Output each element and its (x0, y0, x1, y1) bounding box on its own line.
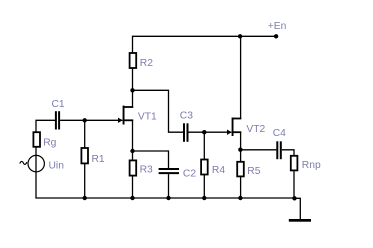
svg-text:C2: C2 (183, 168, 196, 179)
svg-text:Uin: Uin (49, 160, 65, 171)
svg-text:R3: R3 (140, 165, 153, 176)
svg-text:R5: R5 (247, 166, 260, 177)
svg-text:Rnp: Rnp (302, 160, 321, 171)
svg-text:+En: +En (268, 21, 287, 32)
svg-text:R1: R1 (92, 154, 105, 165)
svg-text:R4: R4 (212, 165, 225, 176)
svg-text:VT2: VT2 (246, 124, 265, 135)
svg-text:VT1: VT1 (138, 112, 157, 123)
svg-text:C3: C3 (180, 110, 193, 121)
svg-text:C4: C4 (273, 128, 286, 139)
svg-text:R2: R2 (140, 58, 153, 69)
svg-text:Rg: Rg (43, 137, 56, 148)
svg-text:C1: C1 (52, 99, 65, 110)
